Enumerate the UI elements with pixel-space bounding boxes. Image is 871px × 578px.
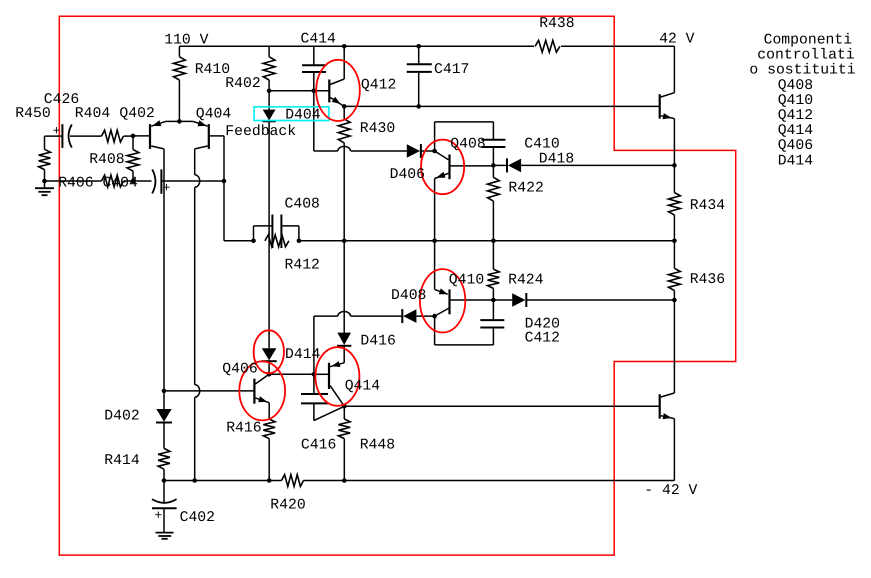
svg-text:R424: R424 <box>508 272 544 288</box>
svg-text:R434: R434 <box>690 198 726 214</box>
svg-text:C402: C402 <box>180 510 215 526</box>
svg-text:Q414: Q414 <box>345 378 381 394</box>
svg-text:D414: D414 <box>778 153 814 169</box>
svg-text:42 V: 42 V <box>659 32 695 48</box>
svg-text:Q412: Q412 <box>778 108 813 124</box>
svg-text:D408: D408 <box>391 288 426 304</box>
svg-text:D418: D418 <box>539 151 574 167</box>
svg-text:Q406: Q406 <box>222 362 257 378</box>
svg-text:R422: R422 <box>508 180 543 196</box>
svg-text:R450: R450 <box>15 106 50 122</box>
svg-text:Q408: Q408 <box>778 78 813 94</box>
svg-text:D402: D402 <box>104 408 139 424</box>
svg-text:R414: R414 <box>104 453 140 469</box>
svg-text:C417: C417 <box>434 62 469 78</box>
svg-text:Componenti: Componenti <box>764 33 853 49</box>
svg-text:Feedback: Feedback <box>225 124 296 140</box>
svg-text:C414: C414 <box>301 31 337 47</box>
svg-text:Q402: Q402 <box>119 106 154 122</box>
svg-text:controllati: controllati <box>757 48 855 64</box>
svg-text:110 V: 110 V <box>164 32 208 48</box>
svg-text:Q408: Q408 <box>450 137 485 153</box>
svg-text:C408: C408 <box>285 197 320 213</box>
svg-text:Q412: Q412 <box>361 77 396 93</box>
svg-text:R436: R436 <box>690 272 725 288</box>
svg-text:+: + <box>163 181 171 196</box>
svg-text:R402: R402 <box>225 76 260 92</box>
svg-text:Q406: Q406 <box>778 138 813 154</box>
svg-text:R404: R404 <box>75 106 111 122</box>
svg-text:R408: R408 <box>89 152 124 168</box>
svg-text:R430: R430 <box>360 121 395 137</box>
svg-text:+: + <box>154 508 162 523</box>
svg-text:R420: R420 <box>270 498 305 514</box>
svg-text:C412: C412 <box>525 331 560 347</box>
svg-text:o sostituiti: o sostituiti <box>749 63 855 79</box>
svg-text:D406: D406 <box>390 167 425 183</box>
svg-text:D404: D404 <box>285 108 321 124</box>
svg-text:D414: D414 <box>285 347 321 363</box>
svg-text:+: + <box>53 123 61 138</box>
svg-text:Q410: Q410 <box>778 93 813 109</box>
svg-text:Q404: Q404 <box>196 106 232 122</box>
svg-text:D416: D416 <box>360 333 395 349</box>
svg-text:R416: R416 <box>226 421 261 437</box>
svg-text:R448: R448 <box>360 438 395 454</box>
svg-text:R438: R438 <box>539 16 574 32</box>
svg-text:Q414: Q414 <box>778 123 814 139</box>
svg-text:C416: C416 <box>301 438 336 454</box>
svg-text:- 42 V: - 42 V <box>644 483 697 499</box>
svg-text:R406 C404: R406 C404 <box>58 176 138 192</box>
svg-text:R412: R412 <box>285 258 320 274</box>
svg-text:Q410: Q410 <box>449 272 484 288</box>
svg-text:C410: C410 <box>524 137 559 153</box>
